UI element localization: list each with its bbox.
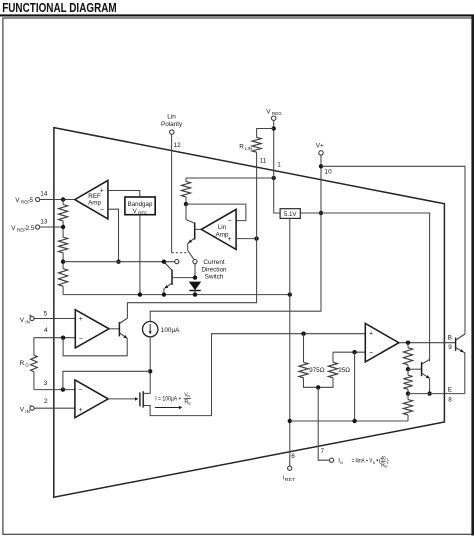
wire to Q5 collector xyxy=(185,204,187,219)
wire FET source to output summing bus xyxy=(143,334,365,416)
svg-text:25Ω: 25Ω xyxy=(338,367,350,374)
svg-text:V+: V+ xyxy=(316,142,324,149)
transistor Q2 bar xyxy=(421,362,423,376)
wire divider to switch contact xyxy=(63,261,175,263)
wire pin2 to A2 + xyxy=(34,407,75,409)
svg-text:RET: RET xyxy=(285,477,296,482)
node Q2 emitter junction xyxy=(427,391,431,395)
node resistor center tap xyxy=(316,385,320,389)
node resistor bottom xyxy=(184,202,188,206)
svg-text:5: 5 xyxy=(30,197,34,204)
node A2 inverting input xyxy=(61,387,65,391)
resistor divider R2 xyxy=(59,237,68,253)
transistor Q3 external bar xyxy=(455,338,457,351)
terminal IRET pin 6 xyxy=(288,466,292,470)
node rail bandgap xyxy=(138,292,142,296)
svg-text:Amp: Amp xyxy=(88,200,101,207)
svg-text:IN: IN xyxy=(25,319,30,324)
wire pin 7 IO output xyxy=(318,387,329,460)
switch contact left xyxy=(175,260,179,264)
svg-text:2.5: 2.5 xyxy=(26,225,35,232)
transistor Q2 collector xyxy=(422,359,430,364)
node bus feedback xyxy=(352,419,356,423)
resistor 975 ohm xyxy=(303,334,305,363)
transistor Q5 bar xyxy=(194,222,196,239)
svg-text:O: O xyxy=(340,460,343,465)
transistor Q1 bar xyxy=(118,322,120,337)
current source 100uA xyxy=(143,322,158,337)
svg-text:= 4mA + V: = 4mA + V xyxy=(352,458,373,465)
wire E row pin 8 xyxy=(408,393,465,395)
wire 5.1V to Q2 collector xyxy=(300,213,429,361)
wire source bottom to FET drain xyxy=(149,337,151,394)
resistor lin feedback xyxy=(185,178,187,182)
svg-text:12: 12 xyxy=(174,142,182,149)
op-amp REF Amp xyxy=(75,180,108,219)
wire pin13 to divider xyxy=(40,226,61,228)
svg-text:REF: REF xyxy=(138,211,147,216)
wire lin amp - feedback loop xyxy=(186,204,246,221)
svg-text:V: V xyxy=(20,317,25,324)
svg-text:V: V xyxy=(266,109,271,116)
node Q2 base tap xyxy=(406,367,410,371)
wire RLIN down and across to emitter follower xyxy=(127,152,256,318)
svg-text:R: R xyxy=(239,143,244,150)
svg-text:Bandgap: Bandgap xyxy=(128,201,153,208)
svg-text:G: G xyxy=(384,465,387,469)
svg-text:REG: REG xyxy=(272,111,282,116)
node V+ top wire xyxy=(319,164,323,168)
wire bottom bus xyxy=(290,420,408,422)
svg-text:5.1V: 5.1V xyxy=(284,211,298,218)
svg-text:FUNCTIONAL DIAGRAM: FUNCTIONAL DIAGRAM xyxy=(2,0,117,15)
node rail diode xyxy=(193,292,197,296)
svg-text:6: 6 xyxy=(291,453,295,460)
svg-text:7: 7 xyxy=(321,448,325,455)
svg-text:Polarity: Polarity xyxy=(161,121,183,128)
wire external emitter down xyxy=(464,352,466,393)
svg-text:E: E xyxy=(448,387,452,394)
svg-text:IN: IN xyxy=(373,461,376,465)
transistor switch Q4 emitter xyxy=(165,283,172,288)
svg-text:Lin: Lin xyxy=(167,113,176,120)
svg-text:Switch: Switch xyxy=(205,273,224,280)
wire 25ohm to A3 - xyxy=(333,351,365,353)
wire V+ to output transistor collector xyxy=(321,166,465,334)
resistor output chain middle xyxy=(403,375,412,389)
wire A3 - to bottom bus xyxy=(354,352,356,421)
wire A3 output to pin 9 B xyxy=(399,342,456,344)
svg-text:2: 2 xyxy=(44,398,48,405)
node divider top xyxy=(61,197,65,201)
FET gate arrow wire xyxy=(108,398,135,400)
transistor Q3 collector xyxy=(456,334,465,340)
wire summing to A2 - xyxy=(63,371,150,389)
svg-text:1: 1 xyxy=(277,162,281,169)
node rail IRET xyxy=(288,419,292,423)
transistor Q2 emitter xyxy=(422,373,430,378)
wire pin4 RG top to A1 - xyxy=(34,337,75,339)
svg-text:Lin: Lin xyxy=(218,224,227,231)
wire Q1 emitter feedback to A1 - xyxy=(63,338,127,356)
wire Q2 base xyxy=(408,368,422,370)
wire REF amp - feedback xyxy=(108,209,119,262)
node summing bus 975 tap xyxy=(301,332,305,336)
transistor Q3 emitter xyxy=(456,348,465,353)
wire common rail xyxy=(63,294,290,296)
transistor switch Q4 base xyxy=(165,263,172,271)
wire pin14 to REF amp xyxy=(40,199,75,201)
transistor Q1 collector xyxy=(119,318,127,323)
svg-text:5: 5 xyxy=(44,310,48,317)
wire pin12 down xyxy=(171,134,173,252)
wire REF amp + to bandgap xyxy=(108,191,140,197)
wire bandgap to rail xyxy=(139,215,141,295)
op-amp Lin Amp xyxy=(201,209,236,249)
node rail 5.1V branch xyxy=(288,292,292,296)
node source to summing xyxy=(148,369,152,373)
FET gate bar xyxy=(139,392,141,406)
node VREG resistor tap xyxy=(272,176,276,180)
svg-text:LIN: LIN xyxy=(245,146,252,151)
resistor output chain bottom xyxy=(407,394,409,400)
svg-text:−: − xyxy=(79,336,83,343)
node RLIN lin amp junction xyxy=(254,236,258,240)
svg-text:Current: Current xyxy=(203,259,225,266)
svg-text:V: V xyxy=(20,406,25,413)
svg-text:−: − xyxy=(29,403,32,409)
transistor Q5 emitter xyxy=(188,238,195,243)
svg-text:IN: IN xyxy=(25,409,30,414)
wire 5.1V to IRET pin 6 xyxy=(289,218,291,466)
svg-text:+: + xyxy=(369,330,373,337)
svg-text:−: − xyxy=(369,350,373,357)
wire pin5 to amp A1 + xyxy=(34,318,75,320)
resistor divider R1 xyxy=(62,200,64,205)
svg-text:R: R xyxy=(20,360,25,367)
terminal VREF5 pin 14 xyxy=(36,197,40,201)
bandgap reference box xyxy=(125,197,155,215)
svg-text:Direction: Direction xyxy=(201,266,227,273)
wire resistor top to VREG line xyxy=(186,177,274,179)
svg-text:Amp: Amp xyxy=(216,231,229,238)
switch lever xyxy=(188,251,195,260)
FET drain wire xyxy=(143,392,150,394)
svg-text:): ) xyxy=(387,458,389,465)
svg-text:975Ω: 975Ω xyxy=(309,367,325,374)
svg-text:V: V xyxy=(11,225,16,232)
transistor Q1 emitter xyxy=(119,333,127,339)
svg-text:IN: IN xyxy=(188,394,191,398)
svg-text:10: 10 xyxy=(325,168,333,175)
svg-text:+: + xyxy=(29,314,32,320)
svg-text:4: 4 xyxy=(44,327,48,334)
node divider mid pin13 xyxy=(61,225,65,229)
svg-text:+: + xyxy=(79,316,83,323)
regulator 5.1V box xyxy=(280,209,300,219)
node divider lower xyxy=(61,260,65,264)
svg-text:B: B xyxy=(448,334,452,341)
svg-text:I = 100µA +: I = 100µA + xyxy=(155,396,181,403)
resistor divider R3 xyxy=(59,269,68,287)
resistor RLIN xyxy=(257,129,274,138)
node V+ 5.1V wire xyxy=(319,211,323,215)
op-amp A2 xyxy=(75,380,108,418)
terminal VREF2.5 pin 13 xyxy=(36,225,40,229)
svg-text:−: − xyxy=(228,218,232,225)
resistor RG external xyxy=(33,338,35,356)
node E wire tap xyxy=(406,391,410,395)
terminal VIN- pin 2 xyxy=(30,406,34,410)
wire pin3 RG bottom to A2 - xyxy=(34,389,75,391)
terminal VREG pin 1 xyxy=(272,116,276,120)
svg-text:9: 9 xyxy=(448,344,452,351)
op-amp A3 output xyxy=(365,324,399,362)
diode D1 anode wire xyxy=(194,264,196,278)
node rail emitter xyxy=(162,292,166,296)
node switch base junction xyxy=(162,260,166,264)
node A1 inverting input xyxy=(61,336,65,340)
FET channel bar xyxy=(142,391,144,407)
terminal V+ pin 10 xyxy=(319,151,323,155)
node VREG RLIN tap xyxy=(272,126,276,130)
resistor 25 ohm xyxy=(332,352,334,362)
svg-text:3: 3 xyxy=(44,380,48,387)
svg-text:−: − xyxy=(78,387,82,394)
resistor output chain top xyxy=(407,343,409,348)
svg-text:V: V xyxy=(15,197,20,204)
node diode top xyxy=(193,275,197,279)
svg-text:G: G xyxy=(188,402,191,406)
terminal IO pin 7 xyxy=(330,458,334,462)
wire VREG down to 5.1V box xyxy=(274,120,280,213)
wire lin amp + input xyxy=(236,238,257,240)
switch linkage dashed xyxy=(172,252,187,254)
diode D1 xyxy=(189,282,201,291)
node REF feedback junction xyxy=(116,260,120,264)
transistor switch Q4 bar xyxy=(171,270,173,285)
svg-text:11: 11 xyxy=(260,157,267,164)
node output base drive xyxy=(406,341,410,345)
IC boundary trapezoid xyxy=(54,128,445,498)
svg-text:8: 8 xyxy=(448,397,452,404)
svg-text:13: 13 xyxy=(40,218,48,225)
switch contact right xyxy=(193,260,197,264)
node A3 - feedback xyxy=(352,350,356,354)
op-amp A1 xyxy=(75,310,109,348)
svg-text:100µA: 100µA xyxy=(161,327,180,334)
svg-text:G: G xyxy=(25,362,29,367)
svg-text:+: + xyxy=(78,407,82,414)
transistor Q1 base wire xyxy=(109,328,119,330)
svg-text:−: − xyxy=(100,207,104,214)
svg-text:14: 14 xyxy=(40,190,48,197)
wire V+ down to current source feed xyxy=(150,155,321,321)
transistor Q5 base wire xyxy=(195,228,202,230)
terminal Lin Polarity pin 12 xyxy=(170,130,174,134)
transistor switch Q4 collector xyxy=(173,277,195,279)
terminal VIN+ pin 5 xyxy=(30,316,34,320)
